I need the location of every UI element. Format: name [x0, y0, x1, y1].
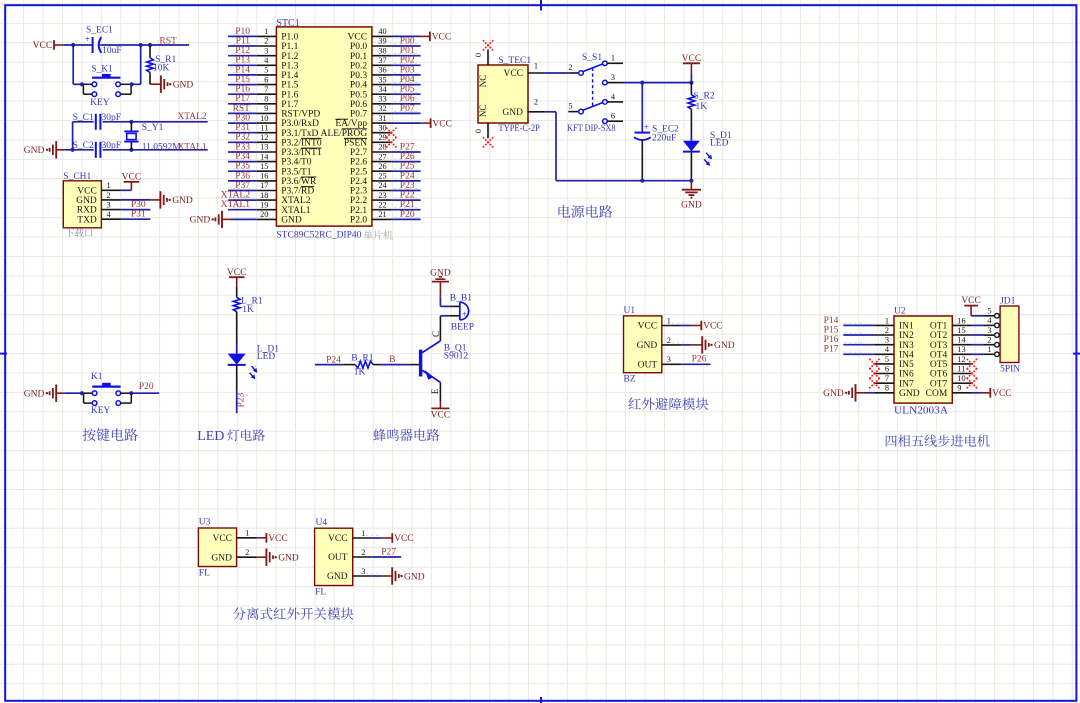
svg-text:11: 11: [957, 364, 965, 373]
svg-text:P0.6: P0.6: [350, 100, 367, 110]
svg-text:P31: P31: [131, 210, 146, 220]
svg-text:29: 29: [378, 133, 386, 142]
svg-text:P06: P06: [400, 94, 415, 104]
svg-text:LED: LED: [197, 429, 224, 444]
svg-text:P2.0: P2.0: [350, 216, 367, 226]
svg-text:C: C: [431, 331, 441, 337]
svg-text:P12: P12: [235, 46, 250, 56]
svg-text:P32: P32: [235, 133, 250, 143]
svg-text:P27: P27: [400, 142, 415, 152]
svg-text:P23: P23: [400, 181, 415, 191]
svg-text:6: 6: [611, 112, 615, 121]
svg-text:VCC: VCC: [432, 33, 452, 43]
svg-text:GND: GND: [173, 81, 194, 91]
svg-text:S_EC1: S_EC1: [86, 25, 113, 35]
svg-text:IN2: IN2: [899, 331, 914, 341]
svg-text:+: +: [462, 309, 467, 318]
svg-text:13: 13: [260, 143, 268, 152]
svg-text:P20: P20: [139, 382, 154, 392]
svg-text:P24: P24: [326, 356, 341, 366]
svg-text:P14: P14: [824, 316, 839, 326]
svg-text:P3.1/TxD: P3.1/TxD: [281, 129, 318, 139]
svg-text:RST/VPD: RST/VPD: [281, 110, 320, 120]
svg-text:0: 0: [474, 129, 483, 133]
svg-text:1: 1: [107, 181, 111, 190]
svg-text:33: 33: [378, 95, 386, 104]
svg-text:KEY: KEY: [90, 98, 110, 108]
svg-text:19: 19: [260, 200, 268, 209]
svg-text:P16: P16: [824, 335, 839, 345]
svg-text:24: 24: [378, 181, 387, 190]
svg-text:GND: GND: [281, 216, 302, 226]
svg-text:P14: P14: [235, 65, 250, 75]
svg-text:P25: P25: [400, 162, 415, 172]
svg-text:IN7: IN7: [899, 379, 914, 389]
svg-text:5: 5: [885, 355, 889, 364]
svg-text:3: 3: [611, 73, 615, 82]
svg-text:10: 10: [260, 114, 268, 123]
svg-text:2: 2: [568, 63, 572, 72]
svg-text:P15: P15: [235, 75, 250, 85]
svg-text:GND: GND: [278, 554, 299, 564]
svg-text:P0.2: P0.2: [350, 61, 367, 71]
svg-text:1: 1: [245, 529, 249, 538]
svg-text:GND: GND: [681, 200, 702, 210]
svg-text:3: 3: [885, 336, 889, 345]
svg-text:P34: P34: [235, 152, 250, 162]
svg-text:P0.4: P0.4: [350, 81, 367, 91]
svg-text:1: 1: [264, 27, 268, 36]
svg-text:5PIN: 5PIN: [1000, 364, 1020, 374]
svg-text:U1: U1: [624, 306, 636, 316]
svg-text:P21: P21: [400, 200, 415, 210]
svg-text:11.0592M: 11.0592M: [142, 143, 182, 153]
svg-text:9: 9: [264, 104, 268, 113]
svg-text:P3.5/T1: P3.5/T1: [281, 167, 312, 177]
svg-text:P2.6: P2.6: [350, 158, 367, 168]
svg-text:OT6: OT6: [930, 370, 948, 380]
svg-text:12: 12: [957, 355, 965, 364]
svg-text:GND: GND: [502, 108, 523, 118]
svg-text:GND: GND: [211, 553, 232, 563]
svg-text:P23: P23: [237, 392, 247, 407]
svg-text:P0.7: P0.7: [350, 110, 367, 120]
svg-text:VCC: VCC: [33, 41, 53, 51]
svg-text:GND: GND: [24, 146, 45, 156]
svg-text:XTAL1: XTAL1: [221, 200, 251, 210]
svg-text:P17: P17: [824, 345, 839, 355]
svg-text:P1.0: P1.0: [281, 33, 298, 43]
svg-text:P3.2/INT0: P3.2/INT0: [281, 138, 322, 148]
svg-text:RST: RST: [233, 104, 251, 114]
svg-text:GND: GND: [404, 572, 425, 582]
svg-text:RXD: RXD: [77, 206, 97, 216]
svg-text:XTAL1: XTAL1: [281, 206, 311, 216]
svg-text:220uF: 220uF: [652, 133, 676, 143]
svg-text:RST: RST: [159, 37, 177, 47]
svg-text:XTAL2: XTAL2: [221, 191, 251, 201]
svg-text:P17: P17: [235, 94, 250, 104]
svg-text:S9012: S9012: [444, 352, 469, 362]
svg-text:P02: P02: [400, 56, 415, 66]
svg-text:P24: P24: [400, 171, 415, 181]
svg-text:P36: P36: [235, 171, 250, 181]
svg-text:P3.4/T0: P3.4/T0: [281, 158, 312, 168]
svg-text:KEY: KEY: [91, 406, 111, 416]
svg-text:P27: P27: [381, 547, 396, 557]
svg-text:P2.5: P2.5: [350, 167, 367, 177]
svg-text:28: 28: [378, 143, 386, 152]
svg-text:16: 16: [260, 172, 268, 181]
svg-text:IN5: IN5: [899, 360, 914, 370]
svg-text:26: 26: [378, 162, 386, 171]
svg-text:P22: P22: [400, 191, 415, 201]
svg-text:OT4: OT4: [930, 350, 948, 360]
svg-text:FL: FL: [199, 568, 210, 578]
svg-text:KFT DIP-SX8: KFT DIP-SX8: [567, 124, 616, 134]
svg-text:10: 10: [957, 374, 965, 383]
svg-text:VCC: VCC: [992, 389, 1012, 399]
svg-text:VCC: VCC: [503, 69, 523, 79]
svg-text:27: 27: [378, 152, 386, 161]
svg-text:1K: 1K: [696, 102, 708, 112]
svg-text:31: 31: [378, 114, 386, 123]
svg-text:1: 1: [611, 54, 615, 63]
svg-text:P1.7: P1.7: [281, 100, 298, 110]
svg-text:B: B: [389, 355, 395, 365]
svg-text:IN6: IN6: [899, 370, 914, 380]
svg-text:VCC: VCC: [227, 268, 247, 278]
svg-text:VCC: VCC: [268, 534, 288, 544]
svg-text:GND: GND: [714, 341, 735, 351]
svg-text:P1.5: P1.5: [281, 81, 298, 91]
svg-text:B_R1: B_R1: [351, 354, 373, 364]
svg-text:12: 12: [260, 133, 268, 142]
svg-text:3: 3: [987, 326, 991, 335]
svg-text:S_C1: S_C1: [73, 113, 94, 123]
svg-text:S_C2: S_C2: [73, 141, 94, 151]
svg-text:38: 38: [378, 46, 386, 55]
svg-text:GND: GND: [24, 390, 45, 400]
svg-text:XTAL2: XTAL2: [177, 112, 207, 122]
svg-text:P2.2: P2.2: [350, 196, 367, 206]
svg-text:VCC: VCC: [432, 119, 452, 129]
svg-text:30: 30: [378, 123, 386, 132]
svg-text:3: 3: [264, 46, 268, 55]
svg-text:GND: GND: [190, 216, 211, 226]
svg-text:NC: NC: [478, 105, 488, 118]
svg-text:1: 1: [361, 529, 365, 538]
svg-text:21: 21: [378, 210, 386, 219]
svg-text:VCC: VCC: [77, 186, 97, 196]
svg-text:6: 6: [264, 75, 268, 84]
svg-text:P16: P16: [235, 85, 250, 95]
svg-text:GND: GND: [327, 572, 348, 582]
svg-text:P07: P07: [400, 104, 415, 114]
svg-text:37: 37: [378, 56, 386, 65]
svg-text:VCC: VCC: [682, 54, 702, 64]
svg-text:IN3: IN3: [899, 341, 914, 351]
svg-text:GND: GND: [172, 196, 193, 206]
svg-text:S_Y1: S_Y1: [142, 123, 164, 133]
svg-text:VCC: VCC: [431, 411, 451, 421]
svg-text:P30: P30: [235, 114, 250, 124]
svg-text:P31: P31: [235, 123, 250, 133]
svg-text:8: 8: [264, 95, 268, 104]
svg-text:P3.0/RxD: P3.0/RxD: [281, 119, 319, 129]
svg-text:VCC: VCC: [638, 322, 658, 332]
svg-text:1: 1: [667, 316, 671, 325]
svg-text:P01: P01: [400, 46, 415, 56]
svg-text:6: 6: [885, 364, 889, 373]
svg-text:10K: 10K: [153, 63, 170, 73]
svg-text:36: 36: [378, 66, 386, 75]
svg-text:25: 25: [378, 172, 386, 181]
svg-text:GND: GND: [430, 268, 451, 278]
svg-text:30pF: 30pF: [102, 141, 122, 151]
svg-text:2: 2: [264, 37, 268, 46]
svg-text:20: 20: [260, 210, 268, 219]
svg-text:2: 2: [667, 336, 671, 345]
svg-text:OUT: OUT: [638, 360, 658, 370]
svg-text:P2.1: P2.1: [350, 206, 367, 216]
svg-text:LED: LED: [710, 139, 729, 149]
svg-text:13: 13: [957, 345, 965, 354]
svg-text:STC1: STC1: [276, 18, 299, 29]
svg-text:P3.7/RD: P3.7/RD: [281, 187, 314, 197]
svg-text:15: 15: [260, 162, 268, 171]
svg-text:S_R2: S_R2: [694, 91, 715, 101]
svg-text:3: 3: [107, 201, 111, 210]
svg-text:P05: P05: [400, 85, 415, 95]
svg-text:P0.3: P0.3: [350, 71, 367, 81]
svg-text:P2.3: P2.3: [350, 187, 367, 197]
svg-text:2: 2: [987, 335, 991, 344]
svg-text:39: 39: [378, 37, 386, 46]
svg-text:P15: P15: [824, 325, 839, 335]
svg-text:B_B1: B_B1: [450, 294, 472, 304]
svg-text:U3: U3: [199, 518, 211, 528]
svg-text:OT2: OT2: [930, 331, 948, 341]
svg-text:1: 1: [885, 316, 889, 325]
svg-text:STC89C52RC_DIP40: STC89C52RC_DIP40: [276, 231, 361, 241]
svg-text:8: 8: [885, 384, 889, 393]
svg-text:GND: GND: [637, 341, 658, 351]
svg-text:BEEP: BEEP: [451, 323, 474, 333]
svg-text:IN4: IN4: [899, 350, 914, 360]
svg-text:U4: U4: [316, 518, 328, 528]
svg-text:34: 34: [378, 85, 387, 94]
svg-text:32: 32: [378, 104, 386, 113]
svg-text:TYPE-C-2P: TYPE-C-2P: [498, 124, 540, 134]
svg-text:S_CH1: S_CH1: [63, 172, 91, 182]
svg-text:P03: P03: [400, 65, 415, 75]
svg-text:0: 0: [474, 53, 483, 57]
svg-text:P13: P13: [235, 56, 250, 66]
svg-text:2: 2: [245, 548, 249, 557]
svg-text:P26: P26: [400, 152, 415, 162]
svg-text:P33: P33: [235, 142, 250, 152]
svg-text:10uF: 10uF: [102, 46, 122, 56]
svg-text:E: E: [430, 388, 440, 394]
svg-text:P0.5: P0.5: [350, 90, 367, 100]
svg-text:OUT: OUT: [328, 553, 348, 563]
svg-text:15: 15: [957, 326, 965, 335]
svg-text:PSEN: PSEN: [344, 138, 367, 148]
svg-text:P30: P30: [131, 200, 146, 210]
svg-text:VCC: VCC: [961, 296, 981, 306]
svg-text:P26: P26: [692, 355, 707, 365]
svg-text:P1.2: P1.2: [281, 52, 298, 62]
svg-text:XTAL2: XTAL2: [281, 196, 311, 206]
svg-text:VCC: VCC: [122, 173, 142, 183]
svg-text:P35: P35: [235, 162, 250, 172]
svg-text:17: 17: [260, 181, 268, 190]
svg-text:LED: LED: [257, 352, 276, 362]
svg-text:P2.4: P2.4: [350, 177, 367, 187]
svg-text:7: 7: [264, 85, 268, 94]
svg-text:P3.3/INT1: P3.3/INT1: [281, 148, 322, 158]
svg-text:1: 1: [534, 62, 538, 71]
svg-text:2: 2: [885, 326, 889, 335]
svg-text:VCC: VCC: [703, 322, 723, 332]
svg-text:OT3: OT3: [930, 341, 948, 351]
svg-text:P3.6/WR: P3.6/WR: [281, 177, 317, 187]
svg-text:5: 5: [987, 307, 991, 316]
svg-text:+: +: [644, 122, 649, 132]
svg-text:7: 7: [885, 374, 889, 383]
svg-text:22: 22: [378, 200, 386, 209]
svg-text:14: 14: [260, 152, 269, 161]
svg-text:NC: NC: [478, 75, 488, 88]
svg-text:40: 40: [378, 27, 386, 36]
svg-text:IN1: IN1: [899, 322, 914, 332]
svg-text:2: 2: [534, 97, 538, 106]
svg-text:23: 23: [378, 191, 386, 200]
svg-text:P0.0: P0.0: [350, 42, 367, 52]
svg-text:VCC: VCC: [328, 534, 348, 544]
svg-text:1K: 1K: [242, 305, 254, 315]
svg-text:OT7: OT7: [930, 379, 948, 389]
svg-text:S_K1: S_K1: [91, 64, 113, 74]
svg-text:GND: GND: [76, 196, 97, 206]
svg-text:P37: P37: [235, 181, 250, 191]
svg-text:OT1: OT1: [930, 322, 948, 332]
svg-text:P1.1: P1.1: [281, 42, 298, 52]
svg-text:EA/Vpp: EA/Vpp: [335, 119, 367, 129]
svg-text:35: 35: [378, 75, 386, 84]
svg-text:3: 3: [667, 355, 671, 364]
svg-text:14: 14: [957, 336, 966, 345]
svg-text:P20: P20: [400, 210, 415, 220]
svg-text:3: 3: [361, 567, 365, 576]
svg-text:16: 16: [957, 316, 965, 325]
svg-text:2: 2: [107, 191, 111, 200]
svg-text:P11: P11: [236, 36, 251, 46]
svg-text:K1: K1: [91, 372, 103, 382]
svg-text:VCC: VCC: [394, 534, 414, 544]
svg-text:ULN2003A: ULN2003A: [894, 405, 949, 416]
svg-text:S_TEC1: S_TEC1: [498, 56, 531, 66]
svg-text:P2.7: P2.7: [350, 148, 367, 158]
svg-text:9: 9: [957, 384, 961, 393]
svg-text:VCC: VCC: [348, 33, 368, 43]
svg-text:1: 1: [987, 345, 991, 354]
svg-text:18: 18: [260, 191, 268, 200]
svg-text:BZ: BZ: [624, 374, 636, 384]
svg-text:P0.1: P0.1: [350, 52, 367, 62]
svg-text:5: 5: [568, 101, 572, 110]
svg-text:2: 2: [361, 548, 365, 557]
svg-text:OT5: OT5: [930, 360, 948, 370]
svg-text:TXD: TXD: [77, 215, 97, 225]
svg-text:COM: COM: [926, 389, 948, 399]
svg-text:FL: FL: [315, 588, 326, 598]
svg-text:P10: P10: [235, 27, 250, 37]
svg-text:11: 11: [260, 123, 268, 132]
svg-text:VCC: VCC: [212, 534, 232, 544]
svg-text:U2: U2: [894, 306, 906, 316]
svg-text:ALE/PROG: ALE/PROG: [321, 129, 368, 139]
svg-text:P04: P04: [400, 75, 415, 85]
svg-text:JD1: JD1: [1000, 296, 1016, 306]
svg-text:P1.6: P1.6: [281, 90, 298, 100]
svg-text:30pF: 30pF: [102, 113, 122, 123]
svg-text:GND: GND: [823, 389, 844, 399]
svg-text:P1.4: P1.4: [281, 71, 298, 81]
svg-text:P1.3: P1.3: [281, 61, 298, 71]
svg-text:S_S1: S_S1: [582, 53, 602, 63]
svg-text:5: 5: [264, 66, 268, 75]
svg-text:P00: P00: [400, 36, 415, 46]
svg-text:1K: 1K: [354, 368, 366, 378]
svg-text:GND: GND: [899, 389, 920, 399]
